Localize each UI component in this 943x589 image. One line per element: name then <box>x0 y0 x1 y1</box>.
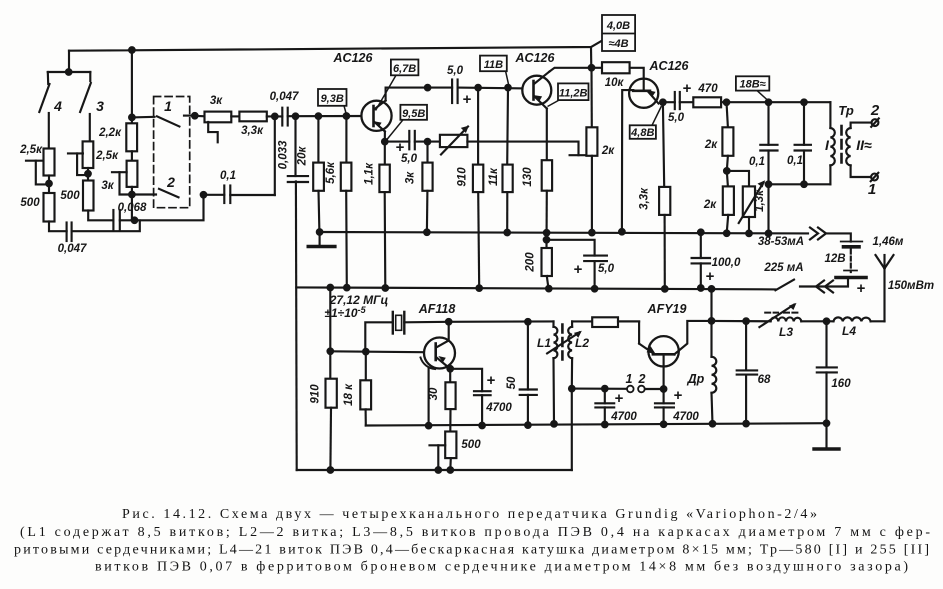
terminal 1 <box>871 174 878 181</box>
svg-text:2,5к: 2,5к <box>19 144 43 156</box>
svg-text:150мВт: 150мВт <box>888 280 934 292</box>
resistor 11k column <box>506 88 509 165</box>
voltage box 11V <box>480 56 507 72</box>
svg-text:11,2В: 11,2В <box>559 88 588 100</box>
contact 2 <box>638 386 645 393</box>
capacitor 4700 A <box>602 386 608 392</box>
node switch bar junction <box>66 69 72 75</box>
capacitor 5,0 coupling stage2 <box>451 80 453 104</box>
core L1L2 <box>561 325 564 361</box>
wire to bottom cap <box>49 222 67 232</box>
svg-text:Рис. 14.12. Схема двух — четыр: Рис. 14.12. Схема двух — четырехканально… <box>122 507 817 522</box>
node cap bus2 <box>592 286 598 292</box>
svg-text:2: 2 <box>166 174 175 190</box>
svg-text:3к: 3к <box>101 180 114 192</box>
svg-text:≈4В: ≈4В <box>608 38 628 50</box>
svg-text:160: 160 <box>831 378 851 390</box>
svg-text:2к: 2к <box>704 139 718 151</box>
trimmer 1,3k <box>727 171 749 187</box>
svg-text:30: 30 <box>428 387 440 400</box>
resistor 3k horizontal <box>205 112 232 123</box>
resistor 910 column <box>477 88 479 165</box>
svg-text:20к: 20к <box>297 146 309 167</box>
svg-text:1: 1 <box>868 181 876 198</box>
node Q1 emitter <box>382 139 388 145</box>
wire tank bottom <box>769 183 831 185</box>
node Q3 base ground <box>619 229 625 235</box>
switch S2 <box>159 189 179 198</box>
battery 12V <box>841 241 863 243</box>
node 910 tap <box>475 85 481 91</box>
switch S4 <box>47 72 50 84</box>
switch S1 <box>132 116 155 119</box>
svg-text:5,6к: 5,6к <box>325 161 337 184</box>
wire top supply bus <box>69 40 604 51</box>
capacitor 4700 emitter <box>450 369 482 391</box>
svg-text:2к: 2к <box>601 145 615 157</box>
wire node down to 0,1 <box>274 116 276 195</box>
node 3,3k bus2 <box>662 286 668 292</box>
terminal 2 <box>872 119 879 126</box>
capacitor 160 <box>825 321 827 367</box>
wire to cap 0,047 <box>267 115 283 117</box>
node top bus tap <box>129 47 135 53</box>
capacitor 0,068 <box>112 210 114 230</box>
svg-text:12В: 12В <box>824 253 845 265</box>
switch S3 <box>89 72 91 81</box>
voltage box 9,5V <box>400 105 427 120</box>
node 2k mid <box>724 168 730 174</box>
svg-text:1: 1 <box>164 98 172 114</box>
svg-text:1,1к: 1,1к <box>364 162 376 185</box>
svg-text:+: + <box>615 390 624 407</box>
antenna <box>883 269 885 322</box>
svg-text:L3: L3 <box>779 325 793 339</box>
node middle chain mid <box>85 171 91 177</box>
svg-text:38-53мА: 38-53мА <box>758 236 804 248</box>
capacitor 4700 B <box>663 389 665 403</box>
svg-text:+: + <box>857 280 866 297</box>
transistor Q2 AC126 <box>522 76 551 105</box>
node S2 contact <box>201 192 207 198</box>
svg-text:2: 2 <box>870 102 880 119</box>
wire tank to ground bus <box>767 184 769 233</box>
svg-text:5,0: 5,0 <box>401 153 418 165</box>
coil L3 variable <box>771 317 802 321</box>
svg-text:4: 4 <box>53 98 62 114</box>
wire switch feed bar <box>48 71 91 73</box>
resistor 2k out lower <box>727 171 728 187</box>
node tank ground <box>766 231 772 237</box>
wire between resistors <box>231 115 239 117</box>
node 18V pointer / 0,1 A <box>766 99 772 105</box>
wire osc top right <box>572 320 639 322</box>
transistor AF118 <box>424 338 455 369</box>
svg-text:4,8В: 4,8В <box>630 127 654 139</box>
node midbus end <box>824 420 830 426</box>
capacitor 0,1 <box>223 186 225 204</box>
svg-text:3к: 3к <box>405 171 417 184</box>
transformer Tr primary <box>829 102 831 128</box>
transistor Q1 AC126 <box>361 101 391 131</box>
capacitor 0,033 <box>294 116 296 176</box>
wire to Q2 base <box>458 87 534 90</box>
capacitor 5,0 emitter AGC <box>385 141 410 143</box>
capacitor 0,047 coupling <box>281 108 283 126</box>
node AF118 emitter <box>447 366 453 372</box>
node 1,1k bus2 <box>383 285 389 291</box>
wire top bus drop <box>590 47 592 68</box>
svg-text:+: + <box>706 268 715 285</box>
node 18k top <box>363 349 369 355</box>
resistor 500 middle chain <box>83 181 94 211</box>
wire <box>48 176 50 194</box>
svg-text:3к: 3к <box>210 95 223 107</box>
svg-text:+: + <box>683 80 692 97</box>
node 3k tap <box>425 139 431 145</box>
resistor 3,3k emitter Q3 <box>663 102 664 187</box>
svg-text:0,1: 0,1 <box>749 156 765 168</box>
svg-text:11В: 11В <box>484 59 503 71</box>
node 11k ground <box>504 230 510 236</box>
wire Q1 emitter <box>384 132 386 142</box>
svg-text:L4: L4 <box>842 324 856 338</box>
node 11k tap <box>505 85 511 91</box>
svg-text:3: 3 <box>96 98 104 114</box>
node tank B <box>801 182 807 188</box>
svg-text:2: 2 <box>638 372 646 386</box>
svg-text:0,047: 0,047 <box>58 243 87 255</box>
node 500 bottom <box>448 467 454 473</box>
resistor 500 osc <box>445 432 456 459</box>
wire cap 0,068 to switch 2 <box>120 195 204 221</box>
node 1,3k bus <box>746 231 752 237</box>
capacitor 50 <box>527 322 529 390</box>
coil L2 <box>571 321 573 326</box>
variable coupling arrow <box>547 332 579 353</box>
voltage box 11,2V <box>558 83 589 100</box>
svg-text:(L1 содержат 8,5 витков; L2—2: (L1 содержат 8,5 витков; L2—2 витка; L3—… <box>20 525 930 540</box>
svg-text:AC126: AC126 <box>649 59 690 73</box>
transformer core <box>840 126 843 168</box>
svg-text:500: 500 <box>461 439 481 451</box>
node right chain bottom <box>129 192 135 198</box>
current arrow 38-53mA <box>810 228 818 240</box>
svg-text:2,2к: 2,2к <box>98 127 122 139</box>
node base bias <box>328 349 334 355</box>
node 20k tap <box>316 113 322 119</box>
node AF118 collector <box>446 319 452 325</box>
svg-text:5,0: 5,0 <box>668 112 685 124</box>
svg-text:+: + <box>463 91 472 108</box>
svg-text:AC126: AC126 <box>333 51 374 65</box>
mid bus <box>366 423 827 425</box>
resistor 30 <box>449 369 451 383</box>
wire 0,033 long drop <box>295 182 298 471</box>
tap bar at 2k <box>570 154 587 156</box>
svg-text:18В≈: 18В≈ <box>739 79 765 91</box>
node 100,0 bottom <box>698 285 704 291</box>
resistor 2k stage2 <box>590 68 592 128</box>
wire base bias <box>330 351 435 352</box>
node collector 10k <box>589 65 595 71</box>
svg-text:4,0В: 4,0В <box>606 20 630 32</box>
node 5,6k bus2 <box>344 285 350 291</box>
node S1 contact <box>192 113 198 119</box>
resistor 2,2k <box>126 123 137 151</box>
capacitor 68 <box>743 318 749 324</box>
node 200 top <box>544 237 550 243</box>
resistor 10k <box>592 67 603 69</box>
transistor Q3 AC126 <box>629 79 658 108</box>
svg-text:6,7В: 6,7В <box>393 63 416 75</box>
svg-text:4700: 4700 <box>672 411 699 423</box>
svg-text:0,1: 0,1 <box>787 155 803 167</box>
transistor AFY19 <box>648 336 678 366</box>
svg-text:9,5В: 9,5В <box>402 108 425 120</box>
node tank A <box>766 182 772 188</box>
choke Dr <box>710 289 712 357</box>
resistor 18k <box>365 352 367 381</box>
node 130 ground <box>544 230 550 236</box>
capacitor 0,1 B <box>803 102 805 145</box>
wire L3 to L4 <box>801 320 833 322</box>
node 200 bus2 <box>546 286 552 292</box>
resistor 2,5k middle chain <box>83 141 94 168</box>
wire S1 to resistor 3k <box>195 115 205 118</box>
node coupling <box>272 114 278 120</box>
ground right <box>814 447 839 450</box>
svg-text:5,0: 5,0 <box>598 263 615 275</box>
svg-text:2,5к: 2,5к <box>95 150 119 162</box>
svg-text:10к: 10к <box>605 77 625 89</box>
resistor 3,3k horizontal <box>239 112 266 122</box>
svg-text:68: 68 <box>758 374 771 386</box>
resistor 500 left chain <box>44 193 55 222</box>
voltage box 4,8V <box>630 125 656 139</box>
voltage box 6,7V <box>391 60 419 76</box>
node 910 bottom <box>328 467 334 473</box>
coil L1 <box>552 321 554 326</box>
node 5,6k tap <box>344 113 350 119</box>
tap hook under 3k <box>208 122 218 142</box>
current arrow 225mA <box>825 281 833 293</box>
svg-text:225 мА: 225 мА <box>763 262 803 274</box>
wire keying contacts <box>572 388 627 390</box>
transformer Tr secondary <box>846 128 850 165</box>
node Q3 emitter <box>660 99 666 105</box>
node AFY19 emitter <box>661 386 667 392</box>
svg-text:100,0: 100,0 <box>712 257 741 269</box>
crystal 27,12 MHz <box>365 322 393 351</box>
svg-text:1: 1 <box>626 372 633 386</box>
capacitor 0,1 A <box>767 102 769 145</box>
svg-text:3,3к: 3,3к <box>639 187 651 210</box>
wire Q3 base to ground <box>622 90 633 232</box>
svg-text:470: 470 <box>697 83 718 95</box>
svg-text:Др: Др <box>687 372 705 386</box>
wire base feed Q1 <box>288 115 370 117</box>
wire S2 to cap 0,1 <box>204 194 225 196</box>
wire collector line to L3 <box>711 320 771 323</box>
svg-text:Тр: Тр <box>838 103 854 118</box>
node left chain mid <box>46 181 52 187</box>
svg-text:0,1: 0,1 <box>220 170 236 182</box>
resistor 20k <box>317 116 319 163</box>
resistor 470 <box>693 97 721 107</box>
resistor 2,5k left chain <box>44 149 55 176</box>
wire Q1 collector <box>386 88 453 101</box>
svg-text:1,3к: 1,3к <box>754 189 766 212</box>
svg-text:50: 50 <box>506 376 518 389</box>
node 910 bus2 <box>328 285 334 291</box>
ground bus <box>320 232 808 233</box>
node 0,1 B <box>801 99 807 105</box>
svg-text:L2: L2 <box>575 336 589 350</box>
node ground <box>317 229 323 235</box>
coil L4 <box>834 317 871 321</box>
voltage box 18V <box>736 76 769 90</box>
trimmer resistor AGC <box>440 135 468 147</box>
switch frame dashed box <box>154 97 190 208</box>
svg-text:L1: L1 <box>537 336 551 350</box>
tap stub right chain <box>112 171 127 173</box>
voltage box 4,0V <box>602 15 635 51</box>
svg-text:200: 200 <box>525 252 537 273</box>
wire AGC to 2k tap <box>467 142 578 156</box>
wire <box>72 220 140 231</box>
node 0,033 tap <box>293 113 299 119</box>
capacitor 5,0 coupling out <box>663 101 675 103</box>
bottom return bus <box>297 469 572 471</box>
node join <box>132 218 138 224</box>
svg-text:9,3В: 9,3В <box>321 93 344 105</box>
node 4700 midbus <box>479 423 485 429</box>
node tap bottom <box>436 467 442 473</box>
tap stub 500 <box>430 444 446 446</box>
wire Q2 collector <box>550 68 592 72</box>
wire right chain bottom <box>131 187 133 220</box>
tap stub middle chain <box>68 152 83 154</box>
node 910 bus2 <box>476 285 482 291</box>
resistor osc feed <box>592 317 618 327</box>
supply bus2 <box>296 287 775 289</box>
svg-text:0,068: 0,068 <box>118 202 147 214</box>
resistor 3k column <box>426 142 428 163</box>
svg-text:4700: 4700 <box>485 402 512 414</box>
power switch on bus2 <box>775 280 794 291</box>
resistor 2k out upper <box>727 102 728 127</box>
tap stub left chain <box>26 160 43 162</box>
svg-text:2к: 2к <box>703 199 717 211</box>
resistor 3k right chain <box>127 161 138 187</box>
svg-text:4700: 4700 <box>610 411 637 423</box>
resistor 200 <box>542 248 552 276</box>
node 6,7V pointer <box>425 85 431 91</box>
svg-text:0,033: 0,033 <box>278 140 290 169</box>
svg-text:3,3к: 3,3к <box>241 125 264 137</box>
svg-text:0,047: 0,047 <box>270 91 299 103</box>
svg-text:18 к: 18 к <box>343 383 355 406</box>
capacitor 5,0 decoupling <box>547 240 595 256</box>
resistor 910 osc <box>329 288 331 379</box>
svg-text:910: 910 <box>310 384 322 404</box>
wire <box>87 168 89 181</box>
svg-text:500: 500 <box>20 197 40 209</box>
svg-text:5,0: 5,0 <box>447 65 464 77</box>
svg-text:910: 910 <box>457 167 469 187</box>
svg-text:AC126: AC126 <box>515 51 556 65</box>
svg-text:II≈: II≈ <box>856 137 872 153</box>
wire to AFY19 emitter <box>618 321 639 343</box>
wire bus drop right chain <box>131 50 133 123</box>
contact 1 <box>627 386 634 393</box>
AF118 shield <box>421 358 436 370</box>
node 160 <box>824 319 830 325</box>
node 3k ground <box>424 230 430 236</box>
node 2k out chain <box>724 99 730 105</box>
svg-text:500: 500 <box>60 190 80 202</box>
svg-text:1,46м: 1,46м <box>873 236 904 248</box>
voltage box 9,3V <box>318 89 347 106</box>
node L2 bottom <box>569 386 575 392</box>
svg-text:+: + <box>674 387 683 404</box>
resistor 5,6k <box>345 116 347 163</box>
ground symbol <box>319 232 321 245</box>
svg-text:+: + <box>574 261 583 278</box>
svg-text:11к: 11к <box>488 167 500 186</box>
wire <box>230 194 274 196</box>
wire osc top left <box>449 320 554 323</box>
wire bus to switch bar <box>68 51 70 72</box>
svg-text:+: + <box>487 372 496 389</box>
node 2k bus <box>724 231 730 237</box>
node 100,0 top <box>698 230 704 236</box>
svg-text:AF118: AF118 <box>418 302 456 316</box>
resistor 1,1k <box>384 142 386 165</box>
svg-text:130: 130 <box>522 167 534 187</box>
capacitor 0,047 bottom <box>66 223 68 242</box>
node right chain top <box>129 115 135 121</box>
node shield <box>426 423 432 429</box>
node 2k ground <box>589 230 595 236</box>
capacitor 100,0 <box>700 232 702 258</box>
wire to cap 0,068 <box>88 211 113 221</box>
wire L4 to antenna <box>871 320 885 322</box>
wire <box>131 151 133 160</box>
resistor 130 <box>546 109 548 161</box>
svg-text:витков ПЭВ 0,07 в ферритовом б: витков ПЭВ 0,07 в ферритовом броневом се… <box>95 560 908 575</box>
svg-text:AFY19: AFY19 <box>647 302 687 316</box>
